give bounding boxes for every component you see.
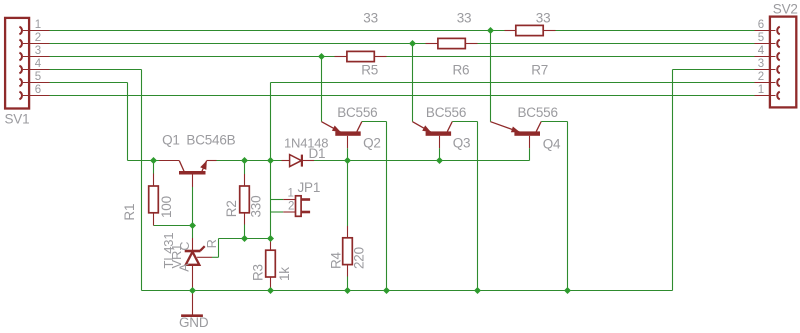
svg-text:R2: R2	[224, 200, 239, 217]
svg-text:SV2: SV2	[773, 2, 798, 17]
svg-text:SV1: SV1	[5, 111, 30, 126]
svg-text:D1: D1	[309, 146, 326, 161]
svg-text:4: 4	[35, 58, 42, 70]
svg-text:1: 1	[287, 188, 293, 200]
svg-text:Q3: Q3	[453, 135, 471, 150]
svg-text:100: 100	[159, 196, 174, 218]
svg-text:1: 1	[35, 19, 41, 31]
svg-text:33: 33	[457, 10, 472, 25]
svg-text:2: 2	[35, 32, 41, 44]
svg-text:1k: 1k	[277, 267, 292, 281]
svg-text:3: 3	[758, 58, 764, 70]
svg-text:33: 33	[536, 10, 551, 25]
svg-text:C: C	[178, 242, 192, 251]
svg-text:BC556: BC556	[337, 105, 377, 120]
svg-text:220: 220	[352, 247, 367, 269]
svg-text:5: 5	[758, 32, 764, 44]
svg-text:Q1: Q1	[162, 132, 180, 147]
svg-text:R3: R3	[251, 264, 266, 281]
svg-text:R: R	[205, 239, 219, 248]
svg-text:Q2: Q2	[363, 135, 381, 150]
svg-text:2: 2	[758, 71, 764, 83]
svg-text:GND: GND	[179, 315, 209, 330]
svg-text:6: 6	[35, 84, 41, 96]
svg-text:3: 3	[35, 45, 41, 57]
svg-text:JP1: JP1	[298, 180, 321, 195]
svg-text:330: 330	[248, 196, 263, 218]
svg-text:R5: R5	[361, 62, 378, 77]
svg-text:R6: R6	[453, 62, 470, 77]
svg-text:BC556: BC556	[518, 105, 558, 120]
svg-text:33: 33	[363, 10, 378, 25]
svg-text:R7: R7	[531, 62, 548, 77]
svg-text:4: 4	[758, 45, 765, 57]
svg-text:A: A	[178, 263, 192, 272]
svg-text:R1: R1	[122, 204, 137, 221]
svg-text:BC546B: BC546B	[186, 132, 235, 147]
svg-text:BC556: BC556	[426, 105, 466, 120]
svg-text:Q4: Q4	[543, 136, 561, 151]
svg-text:1: 1	[758, 84, 764, 96]
svg-text:2: 2	[288, 200, 294, 212]
svg-text:R4: R4	[329, 251, 344, 269]
svg-text:6: 6	[758, 19, 764, 31]
svg-text:5: 5	[35, 71, 41, 83]
